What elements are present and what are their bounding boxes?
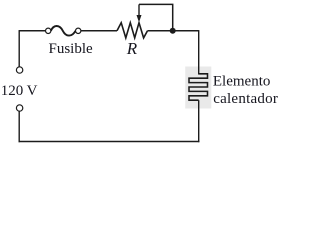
wire right vertical top [198,30,200,74]
svg-text:R: R [126,39,138,58]
label 120 V [1,83,38,99]
wire left vertical top [18,30,20,67]
wire top-left horizontal [19,30,45,32]
label Fusible [49,41,94,57]
wire right vertical bottom [198,100,200,142]
wire fuse to resistor [81,30,117,32]
heating element (Elemento calentador) meander [189,74,208,100]
junction dot [170,28,176,34]
label Elemento calentador [213,73,278,107]
svg-text:Elemento: Elemento [213,73,270,89]
source terminal top (open circle) [16,67,22,73]
svg-text:120 V: 120 V [1,83,38,99]
wire left vertical bottom [18,111,20,142]
wiper arm with arrow (rheostat tap) [137,4,173,30]
resistor R (rheostat zigzag) [117,23,148,38]
wire resistor to corner [148,30,199,32]
heater shading box [185,67,211,109]
svg-text:calentador: calentador [213,91,278,107]
wire bottom horizontal [19,141,200,143]
label R [126,39,138,58]
svg-text:Fusible: Fusible [49,41,94,57]
source terminal bottom (open circle) [16,105,22,111]
fuse F1 (Fusible) [46,26,81,36]
